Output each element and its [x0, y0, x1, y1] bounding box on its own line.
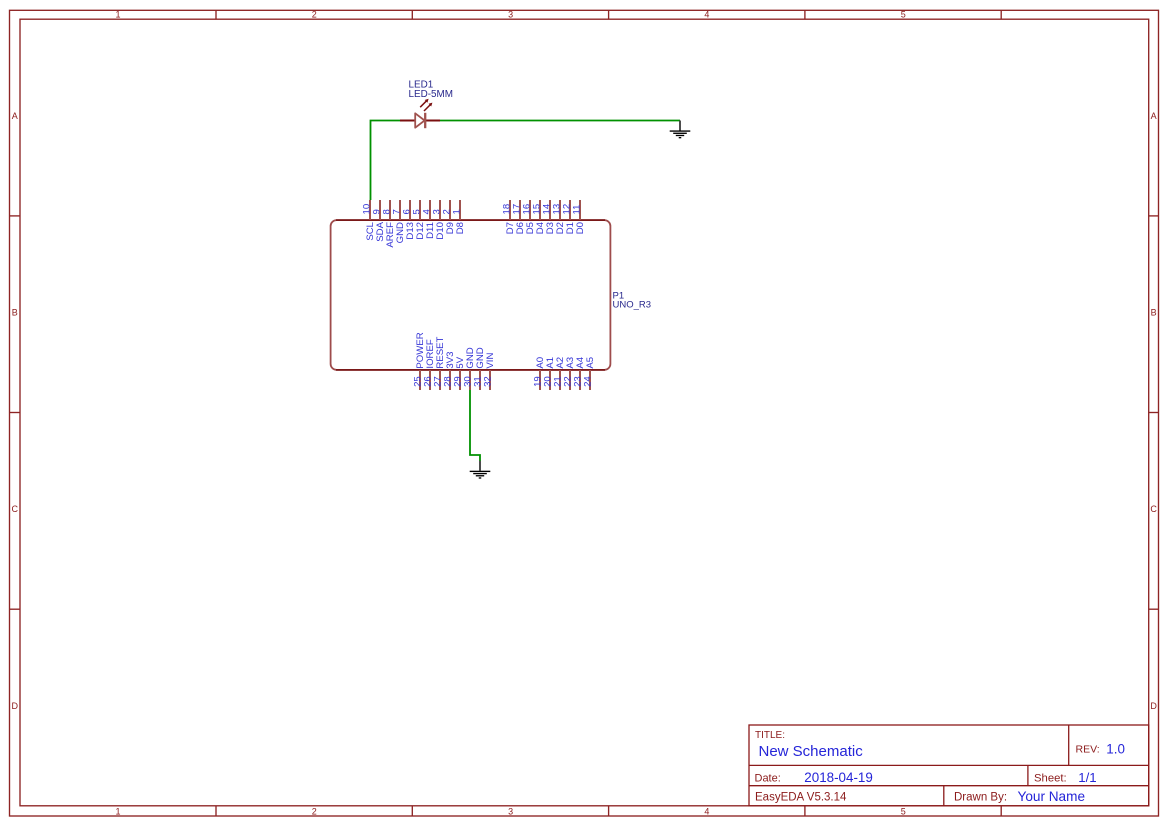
- P1 pin 7 (GND): [392, 200, 407, 243]
- P1 pin 32 (VIN): [483, 353, 497, 390]
- svg-text:D: D: [1150, 701, 1157, 711]
- svg-text:Drawn By:: Drawn By:: [954, 791, 1007, 803]
- svg-text:5: 5: [901, 10, 906, 20]
- svg-text:11: 11: [572, 205, 583, 215]
- P1 pin 27 (RESET): [433, 336, 447, 390]
- svg-text:1.0: 1.0: [1106, 741, 1125, 756]
- svg-text:2: 2: [312, 10, 317, 20]
- svg-text:5: 5: [901, 807, 906, 817]
- P1 pin 21 (A2): [553, 357, 567, 390]
- svg-text:C: C: [1150, 504, 1157, 514]
- wire: LED1 cathode to ground: [440, 120, 680, 122]
- P1 pin 2 (D9): [442, 200, 457, 234]
- svg-text:B: B: [1151, 308, 1157, 318]
- P1 pin 19 (A0): [533, 357, 547, 390]
- P1 pin 18 (D7): [502, 200, 517, 234]
- svg-text:UNO_R3: UNO_R3: [613, 300, 652, 311]
- svg-text:A5: A5: [585, 357, 596, 369]
- svg-text:1: 1: [115, 807, 120, 817]
- P1 pin 10 (SCL): [362, 200, 377, 241]
- svg-text:C: C: [11, 504, 18, 514]
- svg-text:REV:: REV:: [1076, 743, 1100, 755]
- svg-text:1: 1: [115, 10, 120, 20]
- P1 pin 30 (GND): [463, 347, 477, 390]
- P1 pin 23 (A4): [573, 356, 587, 390]
- svg-text:4: 4: [704, 10, 709, 20]
- svg-text:TITLE:: TITLE:: [755, 730, 785, 741]
- svg-text:LED-5MM: LED-5MM: [409, 89, 453, 100]
- wire: P1 pin 10 to LED1 anode: [371, 121, 401, 201]
- svg-text:B: B: [12, 308, 18, 318]
- P1 pin 8 (AREF): [382, 200, 397, 248]
- svg-text:1/1: 1/1: [1078, 770, 1096, 785]
- P1 pin 20 (A1): [543, 357, 557, 390]
- LED LED1: [400, 99, 440, 128]
- P1 pin 1 (D8): [452, 200, 467, 234]
- svg-text:3: 3: [508, 807, 513, 817]
- svg-text:Date:: Date:: [755, 772, 781, 784]
- P1 pin 5 (D12): [412, 200, 427, 240]
- svg-text:Your Name: Your Name: [1018, 789, 1086, 804]
- svg-text:24: 24: [583, 376, 594, 387]
- P1 pin 15 (D4): [532, 200, 547, 234]
- svg-text:EasyEDA V5.3.14: EasyEDA V5.3.14: [755, 791, 847, 803]
- wire: P1 pin 30 (GND) to ground: [470, 390, 480, 461]
- svg-text:4: 4: [704, 807, 709, 817]
- svg-text:D8: D8: [455, 222, 466, 234]
- P1 pin 31 (GND): [473, 347, 487, 390]
- P1 pin 12 (D1): [562, 200, 577, 234]
- P1 pin 9 (SDA): [372, 200, 387, 242]
- P1 pin 26 (IOREF): [423, 339, 437, 390]
- P1 pin 13 (D2): [552, 200, 567, 234]
- svg-text:1: 1: [452, 209, 463, 214]
- ground symbol (LED1 cathode net): [670, 121, 691, 139]
- svg-text:2: 2: [312, 807, 317, 817]
- P1 pin 28 (3V3): [443, 352, 457, 390]
- P1 pin 17 (D6): [512, 200, 527, 234]
- P1 pin 16 (D5): [522, 200, 537, 234]
- svg-text:3: 3: [508, 10, 513, 20]
- P1 pin 11 (D0): [572, 200, 587, 234]
- P1 pin 24 (A5): [583, 357, 597, 390]
- svg-text:D0: D0: [575, 222, 586, 234]
- svg-text:32: 32: [483, 376, 494, 387]
- P1 pin 6 (D13): [402, 200, 417, 240]
- svg-text:VIN: VIN: [485, 353, 496, 369]
- P1 pin 3 (D10): [432, 200, 447, 240]
- svg-text:Sheet:: Sheet:: [1034, 772, 1067, 784]
- P1 pin 29 (5V): [453, 356, 467, 390]
- P1 pin 22 (A3): [563, 357, 577, 390]
- IC P1 UNO_R3 body: [331, 220, 611, 370]
- svg-text:D: D: [11, 701, 18, 711]
- svg-text:New Schematic: New Schematic: [759, 743, 864, 760]
- P1 pin 14 (D3): [542, 200, 557, 234]
- svg-text:A: A: [12, 111, 18, 121]
- svg-text:2018-04-19: 2018-04-19: [804, 770, 873, 785]
- ground symbol (P1 GND net): [470, 461, 491, 479]
- P1 pin 4 (D11): [422, 200, 437, 239]
- svg-text:A: A: [1151, 111, 1157, 121]
- P1 pin 25 (POWER): [413, 332, 427, 390]
